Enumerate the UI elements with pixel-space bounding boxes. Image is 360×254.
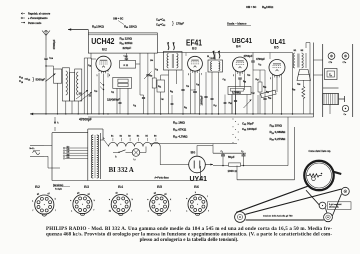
svg-text:220: 220 <box>67 157 70 159</box>
svg-text:50μF: 50μF <box>228 155 235 159</box>
trimmer arrows gang <box>76 90 92 101</box>
node tuner bus dots <box>57 113 58 114</box>
motor clock <box>323 94 339 105</box>
legend symbol regolabile <box>21 13 25 15</box>
resistor under IF1 <box>157 80 165 92</box>
svg-text:0,39MΩ: 0,39MΩ <box>232 92 241 95</box>
svg-text:R21 22KΩ: R21 22KΩ <box>120 41 134 46</box>
socket B4 <box>111 195 130 214</box>
transformer secondary coil <box>97 135 99 178</box>
wire R box to bus <box>116 88 118 114</box>
svg-text:1000 Ω: 1000 Ω <box>228 169 238 173</box>
pulley mid <box>319 202 326 209</box>
wire output transformer frame <box>292 53 294 115</box>
wire vert extra a <box>185 53 187 57</box>
coil IF1 secondary <box>177 54 179 69</box>
wire mains to transformer <box>44 144 52 146</box>
wire antenna to tuner <box>45 60 47 114</box>
svg-text:OM = SC: OM = SC <box>246 6 257 9</box>
switch I2 <box>113 151 119 153</box>
core IF1 <box>171 54 173 68</box>
lamp small right <box>342 105 348 111</box>
svg-text:s: s <box>148 211 149 213</box>
cord lower run <box>246 219 324 221</box>
wire R35 leads <box>257 95 259 114</box>
coil L2 <box>66 71 68 95</box>
svg-text:s: s <box>71 211 72 213</box>
tube UCH42 <box>96 56 111 71</box>
wire IF2 down <box>211 72 213 90</box>
lamp C7b <box>328 53 335 60</box>
pulley left drive <box>235 212 246 223</box>
tube EF41 <box>188 56 203 71</box>
svg-text:B4: B4 <box>118 184 124 189</box>
note box 3 giri <box>328 202 352 210</box>
wire 039 to bus <box>231 95 233 115</box>
trimmer arrow C17 <box>46 74 56 82</box>
box resistor 0.39M <box>228 87 251 95</box>
svg-text:3 giri completi: 3 giri completi <box>329 203 342 206</box>
lamp L7 <box>132 149 140 157</box>
wire clock rail h <box>323 87 339 89</box>
socket B6 <box>188 195 207 214</box>
svg-text:47000pF: 47000pF <box>79 118 92 122</box>
socket B5 <box>150 195 169 214</box>
wire motor stub <box>329 105 331 115</box>
wire tuner bottom c <box>71 101 73 114</box>
tube UL41 <box>269 60 285 76</box>
capacitor C under IF1 <box>181 88 184 90</box>
pulley top right <box>341 187 349 195</box>
wire IF1 down b <box>176 70 178 84</box>
tube UY41 <box>189 156 206 173</box>
svg-text:g: g <box>127 193 128 195</box>
wire I2 to L7 <box>126 152 133 154</box>
svg-text:175pF: 175pF <box>176 22 184 26</box>
wire under IF1 <box>160 92 162 114</box>
node bus extra dots <box>205 113 206 114</box>
capacitor tuner mid a <box>79 92 82 94</box>
svg-text:BI 332 A: BI 332 A <box>109 165 135 174</box>
resistor R23 body <box>152 78 156 88</box>
svg-text:B4: B4 <box>236 44 241 48</box>
chassis box mains <box>51 133 53 181</box>
wire filter loop <box>236 166 238 180</box>
svg-text:7: 7 <box>201 74 202 76</box>
cord drum to left pulley <box>236 186 307 212</box>
box UCH42 cathode R <box>113 77 132 88</box>
wire IF2 top <box>214 53 216 61</box>
lamp C7a <box>342 53 349 60</box>
svg-text:B3: B3 <box>84 184 90 189</box>
wire stub right section a <box>314 59 323 61</box>
svg-text:10000pF: 10000pF <box>201 95 204 105</box>
voltage selector taps <box>65 147 88 149</box>
wire trimmer down <box>147 76 149 114</box>
svg-text:k: k <box>55 198 56 200</box>
tuning arrows IF2 <box>213 51 216 59</box>
svg-text:5: 5 <box>109 75 110 77</box>
trimmer arrow UBC <box>244 100 252 109</box>
svg-text:4700pF: 4700pF <box>256 57 265 61</box>
wire right section rail A <box>322 44 324 117</box>
svg-text:R28 150Ω: R28 150Ω <box>270 124 283 129</box>
wire chain end <box>159 147 161 165</box>
speaker cone <box>297 70 311 81</box>
wire top-left AVC arrow <box>68 29 88 31</box>
svg-text:B3: B3 <box>192 47 197 51</box>
pulley bottom right <box>324 213 333 222</box>
wire UCH42 anode up <box>139 53 141 60</box>
socket B3 <box>73 195 92 214</box>
node antenna bus <box>45 113 46 114</box>
capacitor EF41 screen <box>204 95 207 97</box>
box UCH42 stage label <box>88 33 157 53</box>
svg-text:R19 1MΩ: R19 1MΩ <box>173 121 186 126</box>
svg-text:1: 1 <box>97 75 98 77</box>
capacitor stub mid2 <box>224 101 227 103</box>
wire anode rail <box>157 52 292 54</box>
wire right section rail B <box>352 44 354 117</box>
svg-text:R1010KΩ: R1010KΩ <box>92 24 105 29</box>
svg-text:104: 104 <box>150 60 153 62</box>
cord pulley links <box>326 208 328 213</box>
capacitor C104 antenna <box>44 57 47 59</box>
box oscillator coil L2 <box>62 68 69 101</box>
svg-text:2: 2 <box>188 74 189 76</box>
coil IF1 primary <box>167 54 169 69</box>
svg-text:UCH42: UCH42 <box>91 36 114 46</box>
node bus dots <box>160 113 161 114</box>
svg-text:R46 22KΩ: R46 22KΩ <box>124 24 138 29</box>
capacitor C53 coupling <box>251 60 255 62</box>
box IF transformer 1 <box>164 52 183 71</box>
svg-text:UY41: UY41 <box>190 174 208 183</box>
wire UCH42 grid <box>91 58 96 60</box>
wire tuner bottom d <box>77 101 79 114</box>
svg-text:Regolab. al cursore: Regolab. al cursore <box>28 13 51 16</box>
svg-text:2: 2 <box>270 78 271 80</box>
node UCH42 bus joints <box>98 113 99 114</box>
drum hub <box>312 177 316 181</box>
dotted run punto nudo <box>232 118 235 121</box>
resistor R27 body <box>258 82 262 92</box>
resistor R62 <box>118 83 128 86</box>
svg-text:R5210KΩ: R5210KΩ <box>262 5 274 10</box>
svg-text:Come visto il lato cop.: Come visto il lato cop. <box>309 150 332 153</box>
svg-text:B6: B6 <box>194 184 200 189</box>
cord upper run <box>245 189 341 214</box>
wire UBC41 pins <box>235 73 237 114</box>
svg-text:R14 67KΩ: R14 67KΩ <box>173 128 187 133</box>
arrow pin marks UCH42 <box>100 82 103 90</box>
svg-text:Scala – bianco: Scala – bianco <box>227 22 247 26</box>
svg-text:B6: B6 <box>191 150 196 154</box>
box mixer section <box>70 73 75 102</box>
bus right segment upper <box>200 113 314 115</box>
socket B2 <box>35 195 54 214</box>
capacitor trimmer right <box>146 74 149 76</box>
svg-text:4700pF: 4700pF <box>244 54 253 58</box>
wire antenna down <box>45 40 47 58</box>
wire rail down to IF1 <box>163 52 165 53</box>
resistor filter body <box>229 163 241 166</box>
capacitor R27 bottom <box>263 97 266 99</box>
wire R39 leads <box>302 80 304 87</box>
drum spring <box>307 174 322 177</box>
wire stub right section b <box>314 74 323 76</box>
wire filter top <box>213 152 246 154</box>
box gang section <box>75 69 82 101</box>
svg-text:OM = SC: OM = SC <box>113 18 124 21</box>
antenna <box>42 30 50 40</box>
svg-text:quenza 468 kc/s. Provvisto di: quenza 468 kc/s. Provvisto di orologio p… <box>46 233 332 238</box>
svg-text:Punto nudo: Punto nudo <box>28 22 42 25</box>
wire right border 1 <box>313 43 315 118</box>
capacitor C2 filter <box>242 154 246 156</box>
svg-text:plesso ad orologeria e la tabe: plesso ad orologeria e la tabella delle … <box>140 238 240 243</box>
wire UCH42 pins to bus <box>98 73 100 114</box>
legend symbol punto nudo <box>21 22 25 24</box>
svg-text:tensione della funicella gb 7: tensione della funicella gb 780 <box>263 215 293 218</box>
svg-text:k: k <box>170 199 171 201</box>
wire scallop ticks <box>112 138 114 141</box>
svg-text:k: k <box>94 200 95 202</box>
svg-text:B5: B5 <box>157 184 163 189</box>
box Cp clock contact <box>325 69 338 80</box>
resistor R61 <box>118 79 128 82</box>
wire bus to uy41 <box>150 143 237 145</box>
tube UBC41 <box>233 57 248 72</box>
svg-text:S=sigla: S=sigla <box>55 189 63 191</box>
svg-text:5300pF: 5300pF <box>36 77 46 81</box>
mains plug lines <box>30 144 44 146</box>
box IF transformer 2 <box>208 60 223 72</box>
transformer output secondary <box>302 53 304 68</box>
svg-text:PHILIPS RADIO - Mod. BI 332 A.: PHILIPS RADIO - Mod. BI 332 A. Una gamma… <box>46 227 332 232</box>
mains sine symbol <box>33 151 40 155</box>
bus B+ lower <box>88 116 314 118</box>
svg-text:A=Punto fisso: A=Punto fisso <box>155 177 170 180</box>
svg-text:B5: B5 <box>274 45 279 49</box>
svg-text:M≈1⁄₂: M≈1⁄₂ <box>30 148 35 150</box>
capacitor C24 mid <box>142 96 145 98</box>
wire mains drop <box>54 117 56 124</box>
switch chain scallops <box>109 142 161 146</box>
svg-text:(tensione): (tensione) <box>53 184 63 187</box>
svg-text:}: } <box>32 77 34 83</box>
wire EF41 pins <box>190 73 192 115</box>
svg-text:}: } <box>172 21 174 27</box>
capacitor UBC bottom <box>234 99 237 101</box>
wire IF2 can drop <box>211 90 213 98</box>
wire UY41 top lead <box>196 146 198 157</box>
svg-text:2: 2 <box>233 75 234 77</box>
svg-text:k: k <box>132 199 133 201</box>
svg-text:attorno alb.: attorno alb. <box>329 206 339 209</box>
svg-text:12(4)90pF: 12(4)90pF <box>107 97 120 101</box>
wire IF1 down a <box>168 70 170 114</box>
wire tuner verticals <box>83 58 85 114</box>
bus AVC with arrow <box>30 113 200 115</box>
wire tuner bottom b <box>65 101 67 114</box>
svg-text:C62 50pF: C62 50pF <box>242 122 254 127</box>
capacitor C104 top <box>125 57 128 59</box>
capacitor EF41 cathode <box>193 90 197 92</box>
svg-text:B2: B2 <box>102 46 108 51</box>
svg-text:s: s <box>186 211 187 213</box>
svg-text:C50 50: C50 50 <box>210 58 217 61</box>
coil IF2 <box>211 62 212 71</box>
wire vert extra b <box>269 53 271 60</box>
svg-text:k: k <box>195 192 196 194</box>
transformer output primary <box>293 53 295 68</box>
wire C53 down <box>252 70 254 114</box>
svg-text:47000pF: 47000pF <box>53 39 56 49</box>
capacitor tuner mid b <box>89 94 92 96</box>
wire tuner bottom a <box>57 83 59 114</box>
svg-text:B2: B2 <box>35 184 41 189</box>
dial drum <box>304 161 333 190</box>
svg-text:58: 58 <box>207 56 209 58</box>
core transformer lines <box>94 135 96 178</box>
wire OM-SC tick <box>118 21 124 25</box>
svg-text:R 22: R 22 <box>124 65 129 67</box>
wire C7 lead <box>100 139 104 141</box>
capacitor C1 filter <box>221 154 225 156</box>
transformer frame <box>87 129 89 181</box>
core output transformer <box>297 54 299 68</box>
capacitor UBC41 grid <box>238 77 242 79</box>
drum pointer arm <box>333 171 342 176</box>
legend symbol avvolgimento <box>21 17 25 19</box>
tuning arrows IF1 <box>167 42 170 50</box>
resistor R39 zigzag <box>302 87 305 99</box>
wire EF41 to IF2 h <box>191 89 196 91</box>
transformer primary coil <box>91 135 93 178</box>
wire stub mid3 <box>231 95 233 114</box>
capacitor stub mid1 <box>171 102 174 104</box>
wire UL41 pins <box>272 77 274 115</box>
box tuning cap C17 <box>54 69 62 83</box>
resistor R35 slanted <box>261 90 277 98</box>
wire filter bottom <box>213 165 229 167</box>
svg-text:220pF: 220pF <box>123 46 132 50</box>
capacitor left mid small <box>119 101 122 103</box>
svg-text:» d’avvolgimento: » d’avvolgimento <box>28 17 48 20</box>
box R22 anode <box>120 61 136 69</box>
coil gang <box>77 72 79 95</box>
